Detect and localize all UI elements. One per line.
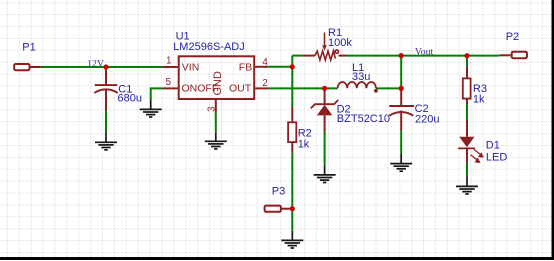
svg-text:P1: P1 bbox=[22, 41, 35, 53]
svg-text:OUT: OUT bbox=[229, 83, 252, 95]
svg-text:1: 1 bbox=[166, 56, 172, 67]
svg-text:33u: 33u bbox=[352, 71, 370, 83]
svg-text:P3: P3 bbox=[272, 186, 285, 198]
svg-text:P2: P2 bbox=[506, 31, 519, 43]
svg-text:VIN: VIN bbox=[182, 61, 200, 73]
svg-text:3: 3 bbox=[207, 106, 218, 112]
svg-text:FB: FB bbox=[239, 61, 252, 73]
svg-text:2: 2 bbox=[262, 78, 268, 89]
svg-text:Vout: Vout bbox=[415, 47, 434, 58]
svg-text:12V: 12V bbox=[87, 58, 104, 69]
svg-text:680u: 680u bbox=[118, 93, 142, 105]
svg-text:BZT52C10: BZT52C10 bbox=[337, 113, 390, 125]
svg-text:4: 4 bbox=[262, 57, 268, 68]
svg-text:1k: 1k bbox=[473, 93, 485, 105]
svg-text:100k: 100k bbox=[328, 37, 352, 49]
svg-text:LED: LED bbox=[486, 152, 507, 164]
svg-text:D1: D1 bbox=[486, 140, 500, 152]
svg-text:GND: GND bbox=[212, 71, 224, 96]
svg-text:220u: 220u bbox=[415, 114, 439, 126]
svg-text:1k: 1k bbox=[298, 138, 310, 150]
svg-text:5: 5 bbox=[166, 77, 172, 88]
svg-text:LM2596S-ADJ: LM2596S-ADJ bbox=[173, 41, 245, 53]
